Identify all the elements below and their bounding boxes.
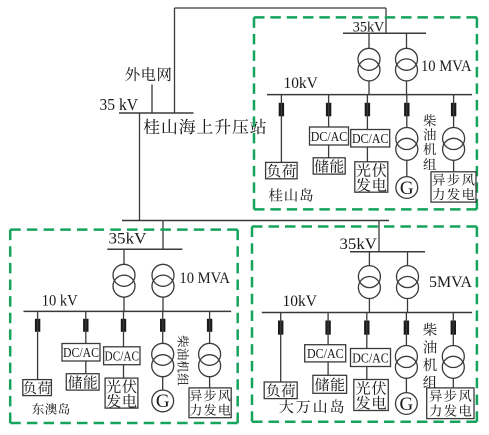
wire: feeder to load xyxy=(280,313,282,383)
breaker (Guishan diesel feeder) xyxy=(404,103,409,117)
load 负荷 (Dong'ao) xyxy=(23,380,52,396)
battery 储能 (Guishan energy storage) xyxy=(313,158,345,174)
wire: 35kV bus to T1 xyxy=(368,33,370,48)
svg-text:G: G xyxy=(156,391,170,412)
wire: feeder to load xyxy=(37,311,39,379)
wire: T9 to 10kV bus xyxy=(368,299,370,313)
breaker (Dawanshan PV feeder) xyxy=(364,321,369,335)
svg-text:10 kV: 10 kV xyxy=(42,292,79,309)
svg-text:10kV: 10kV xyxy=(284,75,319,92)
bus 10kV Dong'ao xyxy=(24,310,232,312)
PV plant 光伏发电 (Guishan) xyxy=(355,162,388,192)
wire: 35kV bus to T9 xyxy=(368,252,370,266)
label 大万山岛 (island name) xyxy=(279,399,343,413)
wire: converter to PV xyxy=(366,367,368,380)
wire: 35kV bus to T10 xyxy=(407,252,409,266)
wire: T10 to 10kV bus xyxy=(407,299,409,313)
wire: feeder to DC/AC converter xyxy=(85,311,87,343)
label 10 kV (Dong'ao) xyxy=(42,292,79,309)
wire: T6 to 10kV bus xyxy=(162,297,164,312)
breaker (Dong'ao diesel feeder) xyxy=(160,319,165,332)
wire: feeder to load xyxy=(280,95,282,163)
wire: feeder to diesel transformer xyxy=(406,95,408,128)
generator G (Dawanshan diesel 柴油机组) xyxy=(396,393,418,415)
wire: tie bus to Dong'ao Island xyxy=(162,221,164,250)
wire: transformer to wind generator xyxy=(209,377,211,388)
wire: T5 to 10kV bus xyxy=(123,297,125,312)
svg-text:G: G xyxy=(400,394,414,415)
value label 10 MVA (Guishan transformers) xyxy=(421,58,472,75)
wind unit 异步风力发电 (Dong'ao asynchronous wind) xyxy=(189,388,231,418)
transformer T5 (Dong'ao 10 MVA) xyxy=(113,264,135,297)
wire: feeder to PV converter xyxy=(366,95,368,130)
transformer T6 (Dong'ao 10 MVA) xyxy=(152,264,174,297)
label 柴油机组 (Dong'ao diesel unit, rotated) xyxy=(177,335,189,385)
wire: transformer to wind generator xyxy=(453,160,455,172)
transformer T1 (Guishan 10 MVA) xyxy=(358,48,380,81)
wire: feeder to PV converter xyxy=(366,313,368,349)
wire: overhead tie line from substation to Guishan Island 35kV xyxy=(175,8,387,113)
breaker (Guishan load feeder) xyxy=(279,103,284,117)
label 10kV (Dawanshan) xyxy=(283,293,318,310)
wire: 35kV bus to T2 xyxy=(406,33,408,48)
converter DC/AC (Guishan PV) xyxy=(351,130,390,148)
transformer T8 (Dong'ao wind unit) xyxy=(199,343,221,376)
generator G (Dong'ao diesel 柴油机组) xyxy=(152,390,174,412)
svg-text:10 MVA: 10 MVA xyxy=(179,270,230,287)
bus 35kV 桂山海上升压站 xyxy=(119,112,194,114)
breaker (Dawanshan wind feeder) xyxy=(451,321,456,335)
wire: feeder to wind transformer xyxy=(453,95,455,128)
converter DC/AC (Dong'ao storage) xyxy=(62,344,100,362)
label 35kV (Dawanshan) xyxy=(340,236,378,253)
wire: transformer to wind generator xyxy=(452,378,454,388)
svg-text:DC/AC: DC/AC xyxy=(311,129,348,144)
wind unit 异步风力发电 (Dawanshan asynchronous wind) xyxy=(427,388,474,419)
transformer T3 (Guishan diesel unit) xyxy=(396,128,418,161)
svg-text:10kV: 10kV xyxy=(283,293,318,310)
transformer T4 (Guishan wind unit) xyxy=(443,128,465,161)
wire: feeder to diesel transformer xyxy=(162,311,164,343)
battery 储能 (Dong'ao energy storage) xyxy=(66,374,99,390)
wire: external grid lead xyxy=(151,85,153,114)
svg-text:35kV: 35kV xyxy=(340,236,378,253)
wire: converter to PV xyxy=(123,365,125,378)
bus 35kV Dong'ao xyxy=(107,248,182,250)
wire: converter to storage xyxy=(328,145,330,158)
wire: feeder to diesel transformer xyxy=(405,313,407,346)
wire: feeder to DC/AC converter xyxy=(328,95,330,127)
wire: transformer to generator xyxy=(405,378,407,392)
transformer T2 (Guishan 10 MVA) xyxy=(396,48,418,81)
wire: tie bus to Dawanshan Island xyxy=(378,221,380,252)
wire: T1 to 10kV bus xyxy=(368,81,370,95)
converter DC/AC (Dawanshan PV) xyxy=(351,349,391,367)
converter DC/AC (Dawanshan storage) xyxy=(305,345,346,362)
value label 10 MVA (Dong'ao transformers) xyxy=(179,270,230,287)
wire: feeder to wind transformer xyxy=(209,311,211,343)
breaker (Dawanshan diesel feeder) xyxy=(404,321,409,335)
battery 储能 (Dawanshan energy storage) xyxy=(313,375,347,393)
breaker (Dawanshan storage feeder) xyxy=(325,321,330,335)
wire: 35kV bus to T5 xyxy=(123,249,125,264)
label 桂山海上升压站 (Guishan offshore step-up station) xyxy=(144,119,266,135)
wire: transformer to generator xyxy=(162,377,164,390)
svg-text:DC/AC: DC/AC xyxy=(352,131,389,146)
bus 10kV Dawanshan xyxy=(262,312,472,314)
breaker (Dawanshan load feeder) xyxy=(278,321,283,335)
label 35kV (Dong'ao) xyxy=(109,230,147,247)
PV plant 光伏发电 (Dong'ao) xyxy=(105,378,138,408)
wire: feeder to wind transformer xyxy=(452,313,454,346)
label 35 kV (substation bus voltage) xyxy=(100,95,139,114)
node 外电网 (external grid) xyxy=(125,67,171,81)
load 负荷 (Dawanshan) xyxy=(264,382,297,399)
wire: converter to storage xyxy=(85,361,87,374)
transformer T9 (Dawanshan 5 MVA) xyxy=(358,266,380,299)
svg-text:DC/AC: DC/AC xyxy=(307,346,344,361)
wire: feeder to PV converter xyxy=(123,311,125,346)
svg-text:G: G xyxy=(400,178,414,199)
svg-text:DC/AC: DC/AC xyxy=(63,345,99,360)
breaker (Guishan PV feeder) xyxy=(365,103,370,117)
wire: feeder to DC/AC converter xyxy=(327,313,329,345)
svg-text:35 kV: 35 kV xyxy=(100,95,139,114)
label 柴油机组 (Dawanshan diesel unit) xyxy=(423,323,437,388)
svg-text:DC/AC: DC/AC xyxy=(105,349,140,364)
converter DC/AC (Guishan storage) xyxy=(310,127,349,145)
boundary box 东澳岛 (Dong'ao Island microgrid) xyxy=(10,230,238,423)
converter DC/AC (Dong'ao PV) xyxy=(104,347,140,365)
transformer T10 (Dawanshan 5 MVA) xyxy=(397,266,419,299)
breaker (Dong'ao wind feeder) xyxy=(207,319,212,332)
transformer T12 (Dawanshan wind unit) xyxy=(442,346,464,379)
PV plant 光伏发电 (Dawanshan) xyxy=(354,380,389,411)
bus 10kV Guishan xyxy=(267,94,472,96)
breaker (Dong'ao load feeder) xyxy=(35,319,40,332)
label 35kV (Guishan) xyxy=(353,20,385,36)
label 10kV (Guishan) xyxy=(284,75,319,92)
svg-text:DC/AC: DC/AC xyxy=(352,351,389,366)
wind unit 异步风力发电 (Guishan asynchronous wind) xyxy=(431,172,476,202)
boundary box 桂山岛 (Guishan Island microgrid) xyxy=(254,17,477,209)
breaker (Guishan wind feeder) xyxy=(451,103,456,117)
boundary box 大万山岛 (Dawanshan Island microgrid) xyxy=(252,227,477,422)
svg-text:10 MVA: 10 MVA xyxy=(421,58,472,75)
generator G (Guishan diesel 柴油机组) xyxy=(396,177,418,199)
value label 5MVA (Dawanshan transformers) xyxy=(429,274,473,291)
wire: converter to PV xyxy=(366,147,368,162)
svg-text:35kV: 35kV xyxy=(109,230,147,247)
breaker (Dong'ao PV feeder) xyxy=(121,319,126,332)
breaker (Guishan storage feeder) xyxy=(326,103,331,117)
label 柴油机组 (Guishan diesel unit) xyxy=(423,114,436,169)
load 负荷 (Guishan) xyxy=(266,162,298,178)
svg-text:5MVA: 5MVA xyxy=(429,274,473,291)
breaker (Dong'ao storage feeder) xyxy=(83,319,88,332)
bus 35kV Dawanshan xyxy=(350,251,425,253)
wire: transformer to generator xyxy=(406,160,408,176)
transformer T7 (Dong'ao diesel unit) xyxy=(152,343,174,376)
wire: substation to interconnection bus xyxy=(139,113,141,221)
label 东澳岛 (island name) xyxy=(32,403,69,415)
wire: T2 to 10kV bus xyxy=(406,81,408,95)
bus 35kV Guishan xyxy=(343,32,426,34)
wire: converter to storage xyxy=(327,362,329,375)
bus: interconnection tie bus xyxy=(122,220,389,222)
transformer T11 (Dawanshan diesel unit) xyxy=(395,346,417,379)
label 桂山岛 (island name) xyxy=(269,188,313,201)
